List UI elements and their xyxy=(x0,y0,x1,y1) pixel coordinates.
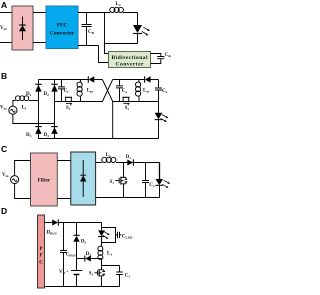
wire source top C xyxy=(15,161,31,176)
svg-text:Filter: Filter xyxy=(37,178,50,184)
X drop to bottom rail xyxy=(112,102,114,139)
PFC converter box xyxy=(46,6,78,49)
cell2 bottom wire xyxy=(113,101,159,103)
svg-text:D3: D3 xyxy=(26,133,32,138)
node to C1 wire xyxy=(102,259,120,266)
svg-text:Lpr: Lpr xyxy=(87,89,94,94)
capacitor Cf xyxy=(58,80,65,102)
LED D xyxy=(98,230,105,242)
svg-text:L1: L1 xyxy=(107,252,112,257)
svg-text:CLED: CLED xyxy=(122,234,133,239)
svg-text:P: P xyxy=(39,247,42,252)
top wire D xyxy=(45,222,53,224)
bottom rail wire xyxy=(78,45,99,47)
inductor Lse xyxy=(136,80,141,102)
top wire C xyxy=(96,162,128,164)
LED C xyxy=(156,163,164,198)
svg-text:A: A xyxy=(1,0,7,10)
svg-text:Lse: Lse xyxy=(143,89,150,94)
wire source bottom xyxy=(13,114,55,123)
svg-text:D1: D1 xyxy=(26,92,32,97)
PFC box D xyxy=(38,215,45,288)
inductor Lf xyxy=(16,96,39,101)
svg-text:Cdc: Cdc xyxy=(165,53,171,58)
inductor Lpr xyxy=(77,80,82,102)
bidirectional converter box xyxy=(109,52,151,68)
wire source bottom C xyxy=(15,184,31,199)
capacitor Ca xyxy=(116,80,123,102)
svg-text:Bidirectional: Bidirectional xyxy=(112,55,148,61)
capacitor CLED parallel branch xyxy=(102,228,122,243)
mosfet branch drain C xyxy=(123,163,125,178)
svg-text:D: D xyxy=(1,206,7,216)
svg-text:CBUS: CBUS xyxy=(66,252,76,257)
capacitor CBUS branch xyxy=(60,223,67,287)
svg-text:D2: D2 xyxy=(81,240,87,245)
diode D3 xyxy=(35,127,42,134)
svg-text:C1: C1 xyxy=(125,273,131,278)
bridge left leg wire xyxy=(38,80,40,139)
diode D3 pointing left xyxy=(77,256,102,262)
svg-text:C: C xyxy=(39,260,43,265)
diode D1 xyxy=(35,84,42,91)
diode top cell1 pointing left xyxy=(88,76,102,82)
diode D2 xyxy=(51,84,57,91)
capacitor CB xyxy=(82,13,92,46)
svg-text:Co: Co xyxy=(162,89,168,94)
wire node to bidirectional top xyxy=(105,13,109,54)
cell2 top wire xyxy=(113,79,145,81)
svg-text:F: F xyxy=(39,254,42,259)
svg-text:CB: CB xyxy=(88,30,95,35)
svg-text:S1: S1 xyxy=(66,106,71,111)
svg-text:D2: D2 xyxy=(44,92,50,97)
svg-text:Converter: Converter xyxy=(50,30,75,36)
LED A return wire xyxy=(105,43,138,45)
svg-text:Co: Co xyxy=(149,183,155,188)
diode D4 xyxy=(51,127,57,134)
wire Vin bottom xyxy=(0,42,12,44)
svg-text:Converter: Converter xyxy=(116,61,145,67)
bottom rail D xyxy=(45,286,120,288)
diode D2 branch xyxy=(73,223,79,259)
svg-text:+: + xyxy=(66,269,69,274)
wire source top to Lf xyxy=(13,101,16,107)
svg-text:S2: S2 xyxy=(125,106,130,111)
mosfet S1 xyxy=(65,97,72,105)
capacitor Co B xyxy=(155,88,162,102)
svg-text:VB: VB xyxy=(59,270,66,275)
corner down to Co xyxy=(158,80,160,88)
X crossing wires xyxy=(102,80,112,102)
capacitor Co C xyxy=(142,163,149,198)
svg-text:Ca: Ca xyxy=(122,89,128,94)
inductor Lo C xyxy=(102,157,116,162)
inductor Lo xyxy=(109,7,138,12)
AC source C xyxy=(11,176,19,184)
AC source B xyxy=(9,106,17,114)
LED B xyxy=(155,102,163,139)
diode D1 C pointing right xyxy=(127,159,159,165)
svg-text:Vin: Vin xyxy=(0,26,7,31)
wire rectifier to PFC top xyxy=(33,12,47,14)
svg-text:D4: D4 xyxy=(44,133,50,138)
svg-text:DBUS: DBUS xyxy=(47,230,57,235)
cell1 bottom wire xyxy=(55,101,103,103)
diode inside rectifier xyxy=(19,17,26,41)
wire Vin top xyxy=(0,12,12,14)
corner from top wire down xyxy=(101,223,103,231)
filter box xyxy=(31,153,58,206)
LED B light arrows xyxy=(161,115,169,122)
svg-text:D3: D3 xyxy=(86,252,92,257)
rectifier box C xyxy=(71,152,96,205)
inductor L1 xyxy=(98,243,103,260)
mosfet source to rail C xyxy=(123,184,125,198)
bottom rail B xyxy=(39,138,159,140)
svg-text:Vin: Vin xyxy=(0,106,7,111)
svg-text:C: C xyxy=(1,144,7,154)
bridge rectifier box xyxy=(12,6,33,50)
LED A xyxy=(133,13,142,44)
wire rail drop to bidirectional bottom xyxy=(99,46,109,63)
bridge right leg wire xyxy=(54,80,56,139)
svg-text:Vin: Vin xyxy=(2,173,9,178)
svg-text:S1: S1 xyxy=(110,180,115,185)
mosfet S1 C xyxy=(115,177,127,185)
capacitor Cdc xyxy=(151,54,165,64)
LED D light arrows xyxy=(103,231,110,238)
svg-text:B: B xyxy=(1,71,7,81)
svg-text:PFC: PFC xyxy=(57,22,68,28)
svg-text:D1: D1 xyxy=(126,155,132,160)
svg-text:Lo: Lo xyxy=(116,2,121,7)
top bus wire xyxy=(78,12,110,14)
mosfet S1 D drain xyxy=(101,266,103,270)
svg-text:S1: S1 xyxy=(89,272,94,277)
mosfet S1 D xyxy=(94,269,105,287)
top rail B xyxy=(39,79,89,81)
wires filter to rectifier xyxy=(57,161,71,199)
mosfet S2 xyxy=(122,97,129,105)
diode top cell2 pointing left xyxy=(145,76,159,82)
svg-text:Lo: Lo xyxy=(106,153,111,158)
diode inside rectifier C xyxy=(80,160,86,197)
bottom rail C xyxy=(96,197,160,199)
LED A light arrows xyxy=(142,27,150,35)
wire rectifier to PFC bottom xyxy=(33,42,47,44)
battery VB xyxy=(71,259,82,287)
LED C light arrows xyxy=(162,180,170,188)
diode DBUS xyxy=(52,219,101,225)
capacitor C1 xyxy=(116,266,123,287)
